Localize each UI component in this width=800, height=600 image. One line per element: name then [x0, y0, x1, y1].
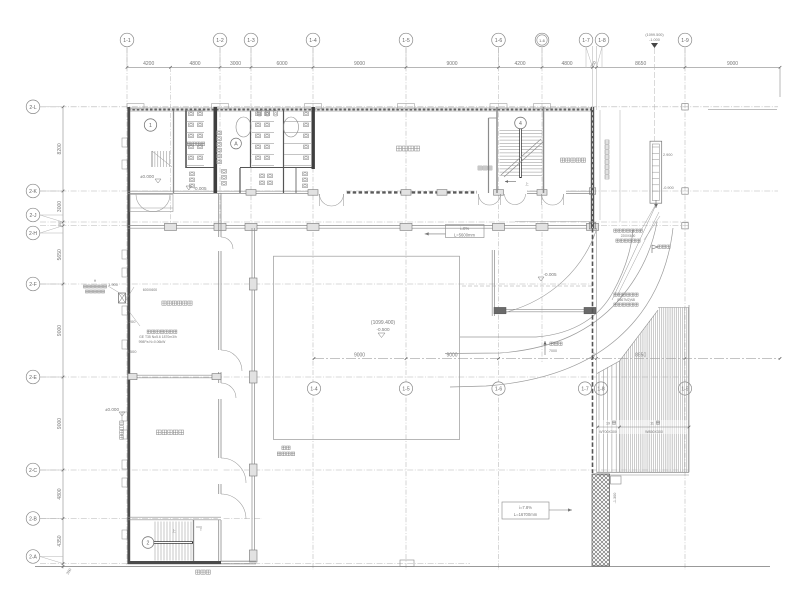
svg-text:2-F: 2-F — [29, 282, 37, 288]
stair lobby west wall — [488, 118, 490, 193]
svg-text:1.900: 1.900 — [108, 282, 119, 287]
toilet block2 stall lines — [252, 110, 274, 112]
bubble 1-8 leader — [597, 47, 603, 67]
road inner arc — [460, 230, 633, 337]
middle dimension line — [314, 358, 780, 360]
stair 4 break line — [501, 139, 541, 175]
room row K wall — [128, 190, 335, 192]
svg-text:4200: 4200 — [143, 61, 154, 67]
portico columns — [494, 307, 506, 313]
svg-text:4800: 4800 — [57, 488, 63, 499]
room1 bubble — [144, 119, 156, 131]
bubble 2-H leader — [40, 226, 63, 233]
svg-text:1-8: 1-8 — [598, 38, 606, 44]
firewall label bottom — [196, 570, 200, 574]
svg-text:3000: 3000 — [230, 61, 241, 67]
grid line row 2-J — [40, 221, 690, 223]
terrace steps hatched area — [598, 372, 600, 472]
stair2 east wall — [193, 520, 195, 561]
double door — [320, 194, 332, 206]
left corridor wall columns — [249, 278, 257, 290]
toilet block1 stall lines — [186, 110, 204, 112]
svg-text:-0.900: -0.900 — [663, 186, 674, 190]
svg-text:2-K: 2-K — [29, 189, 37, 195]
ladder detail rect — [650, 141, 662, 203]
road outer arc — [450, 228, 673, 387]
svg-text:8200: 8200 — [57, 143, 63, 154]
svg-text:9000: 9000 — [446, 61, 457, 67]
svg-text:11: 11 — [650, 422, 654, 426]
svg-text:2.900: 2.900 — [663, 153, 673, 157]
svg-text:4: 4 — [519, 121, 522, 127]
svg-text:2: 2 — [147, 541, 150, 547]
svg-text:1500: 1500 — [128, 349, 138, 354]
fire door label — [478, 166, 482, 170]
middle grid bubbles — [307, 382, 320, 395]
svg-text:i=7.8%: i=7.8% — [519, 505, 532, 510]
room1 storage label — [187, 142, 191, 146]
right dimension edge drop — [779, 67, 781, 97]
east boundary wall dashed — [592, 228, 594, 473]
student activity room label — [157, 430, 162, 435]
grid line col 1-4 — [312, 48, 314, 570]
bubble 2-A leader — [40, 557, 63, 564]
double door — [542, 194, 553, 205]
terrace bottom edge — [597, 471, 689, 473]
svg-text:8650: 8650 — [635, 352, 646, 358]
row K wall columns — [246, 190, 256, 196]
svg-text:19: 19 — [606, 422, 610, 426]
ramp edge east — [515, 221, 592, 223]
toilet block2 fixtures col1 — [256, 112, 261, 116]
grid bubble 2-K left — [26, 184, 40, 198]
grid line row 2-E — [40, 376, 690, 378]
svg-text:2-B: 2-B — [29, 517, 37, 523]
svg-text:±0.000: ±0.000 — [105, 407, 119, 412]
svg-text:2-C: 2-C — [29, 468, 37, 474]
svg-text:-1.300: -1.300 — [613, 493, 617, 504]
exhaust fan symbol — [119, 293, 126, 303]
grid bubble 1-8 top — [601, 47, 603, 67]
svg-text:4200: 4200 — [514, 61, 525, 67]
east wall vertical text — [605, 140, 609, 144]
corridor south wall top wing — [128, 225, 593, 227]
ladder arrow — [655, 200, 657, 208]
svg-text:-0.500: -0.500 — [376, 327, 389, 332]
washroom oval basin 1 — [236, 117, 251, 137]
top dimension line — [127, 66, 780, 68]
stair 4 bubble — [515, 117, 527, 129]
portico eave dashed — [462, 285, 592, 287]
left dimension line — [62, 107, 64, 569]
porch below room1 — [130, 195, 173, 212]
svg-text:4800: 4800 — [189, 61, 200, 67]
grid bubble 2-H left — [26, 226, 40, 240]
svg-text:i=8%: i=8% — [460, 226, 470, 231]
grid bubble 1-9 top — [684, 47, 686, 67]
grid line col 1-7 — [592, 46, 594, 110]
grid line col 1-5 — [405, 48, 407, 570]
grid bubble 1-3 top — [250, 47, 252, 67]
svg-text:1-6: 1-6 — [495, 38, 503, 44]
top wall pilasters — [127, 104, 144, 109]
toilet block2 sinks — [303, 172, 308, 176]
grid bubble 2-A left — [26, 550, 40, 564]
terrace right edge — [688, 305, 690, 472]
grid line col 1-1 — [126, 48, 128, 565]
porch double door — [136, 195, 153, 212]
svg-text:9000: 9000 — [57, 325, 63, 336]
svg-text:1-8: 1-8 — [597, 387, 604, 393]
grid bubble 2-L left — [26, 100, 40, 114]
toilet block1 west wall — [185, 111, 187, 169]
left wall window sills — [122, 138, 127, 147]
grid line col 1-6 — [498, 48, 500, 570]
svg-text:2-A: 2-A — [29, 555, 37, 561]
courtyard sunken square — [274, 256, 460, 439]
svg-text:GE T35 No5.6 1870m3/h: GE T35 No5.6 1870m3/h — [139, 335, 177, 339]
svg-text:2-H: 2-H — [29, 231, 37, 237]
svg-text:5650: 5650 — [57, 249, 63, 260]
grid line col 1-8 — [596, 46, 598, 110]
svg-text:9000: 9000 — [727, 61, 738, 67]
grid bubble 1-7 top — [585, 47, 587, 67]
toilet lower partitions — [239, 168, 241, 193]
left wing room east wall — [218, 193, 220, 561]
svg-text:2-L: 2-L — [29, 105, 36, 111]
grid bubble 2-F left — [26, 277, 40, 291]
svg-text:L=16700mm: L=16700mm — [514, 512, 538, 517]
svg-text:L=5600mm: L=5600mm — [454, 233, 476, 238]
svg-text:±0.000: ±0.000 — [140, 174, 154, 179]
stair exit doors — [505, 194, 516, 205]
svg-text:998Pa N=0.06kW: 998Pa N=0.06kW — [139, 340, 166, 344]
small box right of crosshatch — [611, 476, 622, 484]
courtyard ramp note — [282, 446, 286, 450]
svg-text:9000: 9000 — [57, 418, 63, 429]
top center urinals — [258, 111, 262, 116]
grid bubble 2-B left — [26, 512, 40, 526]
svg-text:2-J: 2-J — [30, 213, 37, 219]
grid bubble 2-E left — [26, 370, 40, 384]
grid line row 2-A — [40, 563, 470, 565]
interior wall row E — [128, 374, 221, 376]
stair 2 treads — [154, 522, 156, 561]
generator label — [652, 245, 658, 253]
grid line row 2-L — [40, 106, 778, 108]
grid line row 2-C — [40, 469, 690, 471]
terrace panel divider — [619, 361, 621, 472]
svg-text:1-5: 1-5 — [402, 38, 410, 44]
grid bubble 1-2 top — [219, 47, 221, 67]
toilet block1 sinks — [190, 172, 195, 176]
svg-text:A: A — [234, 142, 238, 148]
anteroom west urinal column — [217, 131, 222, 135]
svg-text:上: 上 — [172, 528, 176, 533]
annotation text block right 2 — [614, 293, 617, 296]
stair 2 bubble — [142, 537, 154, 549]
svg-text:1-9: 1-9 — [681, 38, 689, 44]
grid line col 1-9 — [684, 48, 686, 570]
grid bubble 2-C left — [26, 463, 40, 477]
fire access vertical lines — [599, 110, 601, 220]
small rect bottom middle — [400, 560, 414, 567]
svg-text:2200X600: 2200X600 — [621, 234, 636, 238]
toilet block2 fixtures col2 — [304, 112, 309, 116]
bottom wall left wing — [128, 561, 221, 564]
midline small arrow label — [544, 341, 546, 355]
svg-text:1-4: 1-4 — [310, 387, 317, 393]
svg-text:1-7: 1-7 — [582, 38, 590, 44]
svg-text:1200: 1200 — [127, 319, 137, 324]
fence line top right — [708, 108, 777, 110]
svg-text:2-E: 2-E — [29, 375, 37, 381]
left wing corridor east wall — [251, 228, 253, 561]
svg-text:(1099.400): (1099.400) — [371, 320, 396, 326]
svg-text:4350: 4350 — [57, 535, 63, 546]
left exterior wall — [127, 107, 130, 564]
corridor south wall columns — [165, 223, 177, 230]
portico south wall — [494, 308, 596, 310]
svg-text:-0.005: -0.005 — [543, 272, 556, 277]
grid line col 1-6a — [541, 48, 543, 362]
svg-text:上: 上 — [525, 181, 529, 186]
stair 4 center rail — [519, 127, 521, 178]
svg-text:6000: 6000 — [276, 61, 287, 67]
east wall dashed top wing — [591, 107, 594, 228]
svg-text:-0.005: -0.005 — [193, 186, 206, 191]
svg-text:1-7: 1-7 — [581, 387, 588, 393]
bubble 1-7 leader — [586, 47, 593, 67]
svg-text:1-6: 1-6 — [539, 38, 546, 43]
svg-text:9000: 9000 — [354, 352, 365, 358]
columns on east wall — [589, 188, 595, 194]
ramp annotation box top — [446, 225, 485, 238]
computer room label — [397, 146, 402, 151]
toilet stall bottoms — [186, 167, 214, 169]
svg-text:1-6: 1-6 — [495, 387, 502, 393]
grid bubble 1-4 top — [312, 47, 314, 67]
washroom oval basin 2 — [284, 117, 299, 137]
svg-text:1-3: 1-3 — [247, 38, 255, 44]
grid bubble 1-6a top (double) — [541, 47, 543, 67]
terrace top diagonal — [597, 361, 620, 374]
grid line col 1-1a — [170, 67, 172, 230]
svg-text:1-5: 1-5 — [402, 387, 409, 393]
interior wall room1 east — [173, 111, 175, 194]
svg-text:1: 1 — [149, 123, 152, 129]
svg-text:3000: 3000 — [57, 201, 63, 212]
grid bubble 2-J left — [26, 208, 40, 222]
portico west wall — [491, 250, 493, 316]
svg-text:8650: 8650 — [635, 61, 646, 67]
toilet block1 fixtures — [189, 112, 194, 116]
grid bubble 1-1 top — [126, 47, 128, 67]
columns on col9 line — [682, 104, 688, 110]
grid bubble 1-5 top — [405, 47, 407, 67]
toilet block2 partitions — [250, 111, 252, 169]
grid bubble 1-6 top — [498, 47, 500, 67]
annotation leaders right — [640, 204, 656, 232]
anteroom bottom fixtures — [222, 170, 227, 174]
top exterior wall — [128, 108, 593, 111]
grid line col 1-2 — [219, 48, 221, 232]
student workshop label — [162, 301, 166, 305]
svg-text:(5667M2)NB: (5667M2)NB — [617, 298, 635, 302]
stairwell 4 west wall — [496, 107, 498, 193]
grid line col 1-3 — [250, 48, 252, 232]
svg-text:9000: 9000 — [354, 61, 365, 67]
crosshatched wall section — [592, 474, 610, 566]
svg-text:W700X300: W700X300 — [599, 430, 617, 434]
grid line row 2-H — [40, 225, 690, 227]
toilet block2 east wall dark — [312, 107, 315, 169]
svg-text:1-1: 1-1 — [123, 38, 131, 44]
fire control room label — [561, 158, 565, 162]
svg-text:1-4: 1-4 — [309, 38, 317, 44]
svg-text:-1.000: -1.000 — [649, 38, 660, 42]
stair 2 center rail — [153, 541, 193, 543]
terrace step dims — [598, 420, 688, 434]
bubble 2-J leader — [40, 215, 63, 222]
room1 corner stair — [151, 151, 153, 167]
svg-text:7000: 7000 — [549, 349, 557, 353]
stair 4 arrows — [505, 181, 516, 183]
ramp annotation box bottom — [502, 502, 549, 519]
road middle arc — [445, 222, 657, 354]
washroom label A bubble — [231, 138, 242, 149]
portico curb arc — [505, 231, 596, 313]
svg-text:(1099.500): (1099.500) — [645, 33, 664, 37]
ground line bottom — [35, 566, 770, 568]
terrace top edge right — [658, 307, 689, 309]
svg-text:4800: 4800 — [561, 61, 572, 67]
grid line row 2-B — [40, 518, 262, 520]
svg-text:1-2: 1-2 — [216, 38, 224, 44]
stairwell 4 east wall — [543, 107, 545, 193]
double door — [479, 194, 490, 205]
toilet block1 east wall dark — [214, 107, 218, 193]
stair 4 treads — [500, 130, 543, 132]
annotation text block right 1 — [614, 229, 617, 232]
grid line row 2-F — [40, 283, 594, 285]
svg-text:600X600: 600X600 — [143, 288, 157, 292]
grid line row 2-K — [40, 190, 778, 192]
svg-text:W850X300: W850X300 — [645, 430, 663, 434]
fireproof stairs vertical label — [120, 421, 124, 425]
interior wall row B — [128, 516, 221, 518]
left wing room doors — [221, 237, 233, 249]
